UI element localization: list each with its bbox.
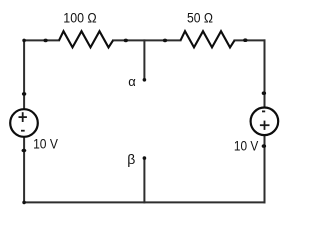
svg-text:10 V: 10 V xyxy=(234,139,258,154)
svg-text:α: α xyxy=(128,74,136,89)
svg-text:50 Ω: 50 Ω xyxy=(187,11,213,26)
svg-text:100 Ω: 100 Ω xyxy=(63,11,96,26)
svg-text:β: β xyxy=(127,151,135,167)
svg-text:10 V: 10 V xyxy=(33,137,58,152)
